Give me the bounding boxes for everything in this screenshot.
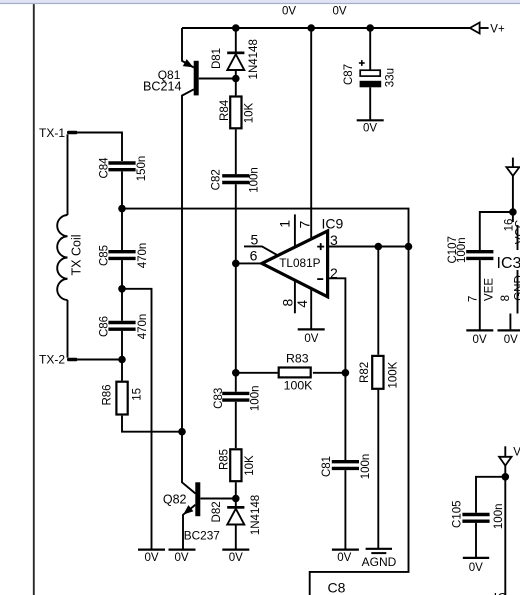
node R86-collector <box>178 428 186 436</box>
svg-text:TX-2: TX-2 <box>39 352 65 366</box>
wire C107 branch <box>480 212 513 250</box>
inductor TX Coil <box>57 215 67 300</box>
wire TX-2 pad <box>78 359 122 361</box>
ground AGND <box>366 548 392 550</box>
node pin3-R82 <box>375 243 383 251</box>
ground 0V C107 <box>466 329 493 331</box>
wire node to C86 <box>121 289 123 321</box>
wire C87 to ground <box>369 87 371 120</box>
svg-text:V+: V+ <box>490 23 505 35</box>
wire V arrow to node and down <box>504 446 506 458</box>
svg-text:0V: 0V <box>504 334 518 346</box>
power arrow V lower right <box>499 457 511 466</box>
svg-text:C87: C87 <box>343 64 355 85</box>
wire C87 top <box>369 28 371 70</box>
wire C83 to R85 <box>235 402 237 448</box>
resistor R83 <box>279 368 311 378</box>
svg-text:D82: D82 <box>211 501 223 522</box>
svg-text:470n: 470n <box>137 314 149 340</box>
wire D81 anode to R84 <box>235 70 237 95</box>
wire node to C85 <box>121 209 123 250</box>
capacitor C83 plates <box>222 392 249 395</box>
svg-text:C82: C82 <box>211 169 223 190</box>
op-amp U IC9 triangle <box>262 231 328 297</box>
wire op-amp pin4 to ground <box>310 289 312 330</box>
wire op-amp pin8 stub <box>294 280 296 313</box>
svg-text:150n: 150n <box>136 156 148 182</box>
wire TX-1 to C84 <box>78 133 122 162</box>
wire IC3 pin8 to ground <box>509 314 511 330</box>
wire Q81 emitter vertical <box>182 28 194 68</box>
svg-text:R83: R83 <box>286 351 309 365</box>
svg-text:0V: 0V <box>469 562 483 574</box>
wire D81 top <box>235 28 237 52</box>
svg-text:AGND: AGND <box>362 555 397 569</box>
svg-text:1N4148: 1N4148 <box>248 39 260 79</box>
wire R86 bottom to collector line <box>122 416 182 432</box>
svg-text:R82: R82 <box>359 362 371 383</box>
terminal TX-2 pad <box>67 358 78 362</box>
svg-text:C85: C85 <box>99 245 111 266</box>
node rail-pin7 <box>307 24 315 32</box>
svg-text:VCC: VCC <box>515 220 520 244</box>
wire R85 to D82 node <box>235 482 237 506</box>
resistor R85 <box>230 449 241 481</box>
svg-text:Q82: Q82 <box>163 493 187 507</box>
rotated labels <box>70 39 520 535</box>
node rail-D81 <box>232 24 240 32</box>
capacitor C87 electrolytic <box>360 70 380 76</box>
svg-text:IC9: IC9 <box>322 216 344 232</box>
svg-text:0V: 0V <box>282 6 296 18</box>
svg-text:100n: 100n <box>249 386 261 412</box>
wire op-amp pin5 stub <box>244 246 278 255</box>
svg-text:0V: 0V <box>304 333 318 345</box>
transistor Q81 emitter arrow (PNP) <box>183 59 194 67</box>
svg-text:100n: 100n <box>249 167 261 193</box>
node rail-C87 <box>366 24 374 32</box>
svg-text:0V: 0V <box>229 552 243 564</box>
C87 plus sign <box>359 60 365 66</box>
svg-text:0V: 0V <box>337 552 351 564</box>
svg-text:2: 2 <box>330 265 338 281</box>
svg-text:V+: V+ <box>513 447 520 459</box>
wire C85 to node <box>121 260 123 289</box>
svg-text:3: 3 <box>330 232 338 248</box>
svg-text:C84: C84 <box>99 157 111 179</box>
top window bar <box>0 0 520 3</box>
svg-text:10K: 10K <box>244 102 256 123</box>
svg-text:4: 4 <box>294 300 310 308</box>
svg-text:C81: C81 <box>321 456 333 477</box>
capacitor C107 plates <box>466 250 493 253</box>
svg-text:1N4148: 1N4148 <box>250 495 262 535</box>
node IC3 pin16-C107 <box>509 208 517 216</box>
capacitor C81 plates <box>332 460 359 463</box>
capacitor C82 plates <box>222 174 249 177</box>
transistor Q81 bar <box>194 61 199 96</box>
wire IC3 box left edge upper <box>517 225 519 250</box>
diode D82 <box>227 506 244 509</box>
svg-text:TX-1: TX-1 <box>39 126 65 140</box>
svg-text:IC: IC <box>494 591 508 595</box>
svg-text:7: 7 <box>297 220 313 228</box>
capacitor C105 plates <box>462 513 489 516</box>
capacitor C84 plates <box>108 163 493 521</box>
svg-text:0V: 0V <box>174 552 188 564</box>
svg-text:BC237: BC237 <box>184 529 220 543</box>
svg-text:15: 15 <box>131 388 143 401</box>
op-amp minus input mark <box>317 278 323 280</box>
node R83 left <box>232 369 240 377</box>
wire C86 to TX-2 node <box>121 331 123 360</box>
wire op-amp pin2 to C81 <box>328 278 346 460</box>
svg-text:TL081P: TL081P <box>279 256 320 270</box>
resistor R86 <box>116 382 127 415</box>
svg-text:R86: R86 <box>101 384 113 405</box>
svg-text:C8: C8 <box>328 580 346 595</box>
wire op-amp pin3 <box>328 246 409 248</box>
svg-text:TX Coil: TX Coil <box>70 235 84 276</box>
node D81-R84-Q81base <box>232 75 240 83</box>
transistor Q82 emitter arrow (NPN) <box>183 505 193 514</box>
svg-text:100K: 100K <box>387 361 399 388</box>
svg-text:IC3: IC3 <box>497 255 520 272</box>
svg-text:0V: 0V <box>332 6 346 18</box>
ground 0V C87 <box>357 119 384 121</box>
node Q82base-R85-D82 <box>232 495 240 503</box>
svg-text:R84: R84 <box>219 99 231 121</box>
transistor Q82 bar <box>195 482 200 516</box>
svg-text:100n: 100n <box>493 504 505 530</box>
svg-text:0V: 0V <box>363 123 377 135</box>
node C85-C86-gnd <box>118 285 126 293</box>
ground 0V op-amp pin4 <box>138 120 520 558</box>
ground 0V IC3 pin8 <box>498 329 520 331</box>
capacitor C85 plates <box>108 250 135 253</box>
wire C84 to node <box>121 171 123 208</box>
wire IC3 pin16 from arrow <box>512 176 514 222</box>
wire D82 anode to ground <box>235 525 237 550</box>
wire C85/C86 node to ground <box>122 289 152 550</box>
wire top rail 0V/V+ <box>182 27 470 29</box>
wire R83 left <box>236 372 278 374</box>
svg-text:100n: 100n <box>456 237 468 263</box>
svg-text:1: 1 <box>276 220 292 228</box>
wire Q81 collector to Q82 <box>182 89 196 493</box>
wire pin3 node to R82 <box>377 247 379 355</box>
node pin3-loop <box>405 243 413 251</box>
svg-text:8: 8 <box>500 295 512 301</box>
wire TX-1 down to coil <box>67 134 69 215</box>
wire C107 to ground <box>479 260 481 330</box>
svg-text:470n: 470n <box>137 243 149 269</box>
svg-text:10K: 10K <box>244 455 256 476</box>
terminal TX-1 pad <box>67 131 78 135</box>
wire R82 to AGND <box>377 390 379 548</box>
svg-text:7: 7 <box>467 296 479 302</box>
svg-text:VEE: VEE <box>483 278 495 301</box>
wire Q82 base <box>200 498 235 500</box>
wire C82 to output node and down to C83 <box>235 184 237 392</box>
resistor R84 <box>230 97 241 129</box>
svg-text:C105: C105 <box>452 500 464 528</box>
diode D81 <box>227 52 244 55</box>
svg-text:D81: D81 <box>211 48 223 69</box>
node C84-rail2 <box>118 205 126 213</box>
capacitor C86 plates <box>108 321 135 324</box>
svg-text:8: 8 <box>280 298 296 306</box>
wire Q82 emitter to ground <box>183 505 195 550</box>
svg-text:C86: C86 <box>99 316 111 337</box>
wire C105 branch <box>476 477 505 513</box>
wire R84 to C82 <box>235 129 237 174</box>
svg-text:R85: R85 <box>219 449 231 470</box>
svg-text:0V: 0V <box>473 334 487 346</box>
page border line <box>33 4 35 595</box>
wire C105 to ground <box>475 523 477 558</box>
wire C81 to ground <box>344 470 346 549</box>
ground 0V C105 <box>463 557 489 559</box>
svg-text:BC214: BC214 <box>143 79 182 93</box>
node R83 right <box>342 369 350 377</box>
resistor R82 <box>372 356 383 389</box>
ground 0V mid bottom <box>138 548 165 550</box>
wire coil to TX-2 <box>67 300 69 358</box>
node V-C105 <box>502 473 510 481</box>
wire op-amp pin1 stub <box>294 214 296 247</box>
svg-text:GND: GND <box>514 275 520 301</box>
svg-text:0V: 0V <box>144 552 158 564</box>
wire loop rail <box>122 209 409 595</box>
op-amp plus input mark <box>317 243 324 279</box>
ground 0V C81 <box>332 548 359 550</box>
svg-text:100n: 100n <box>360 454 372 480</box>
svg-text:5: 5 <box>251 231 259 247</box>
ground 0V D82 <box>222 548 249 550</box>
power arrow IC3 supply <box>512 158 514 173</box>
wire TX-2 node to R86 <box>121 360 123 381</box>
svg-text:C83: C83 <box>213 388 225 409</box>
wire R83 right <box>313 372 346 374</box>
ground 0V Q82 emitter <box>169 548 196 550</box>
power arrow V+ top right <box>470 23 480 34</box>
wire Q81 base <box>199 78 236 80</box>
svg-text:100K: 100K <box>284 378 314 392</box>
node TX-2 <box>118 356 126 364</box>
wire op-amp pin7 supply <box>310 28 312 239</box>
svg-text:6: 6 <box>250 248 258 264</box>
svg-text:33u: 33u <box>384 68 396 87</box>
node output <box>232 260 240 268</box>
wire op-amp output <box>236 262 262 264</box>
wire IC3 box left edge lower <box>517 270 519 314</box>
